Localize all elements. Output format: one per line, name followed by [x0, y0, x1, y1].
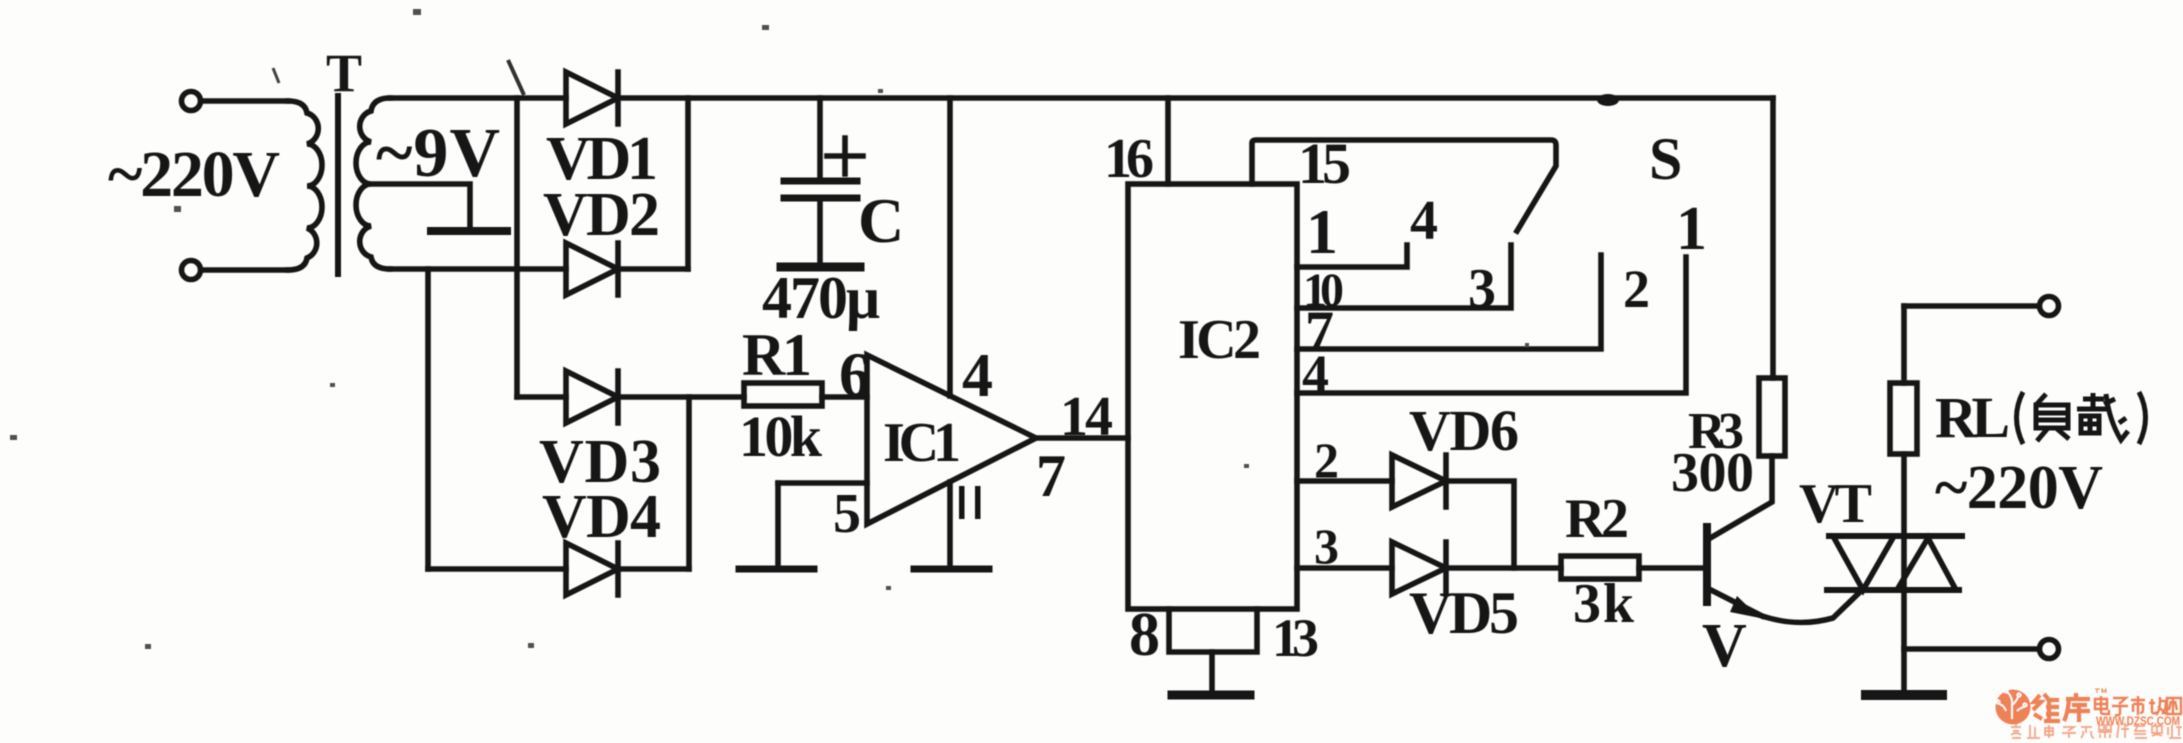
svg-text:T: T: [326, 43, 362, 103]
svg-text:S: S: [1649, 126, 1682, 192]
svg-text:VD2: VD2: [543, 181, 660, 249]
svg-text:~220V: ~220V: [108, 138, 280, 211]
svg-text:V: V: [1702, 612, 1747, 680]
svg-text:~9V: ~9V: [376, 115, 500, 192]
svg-text:14: 14: [1060, 386, 1113, 448]
svg-text:IC1: IC1: [883, 412, 961, 474]
svg-text:5: 5: [833, 483, 861, 545]
svg-text:470μ: 470μ: [762, 265, 880, 331]
svg-text:1: 1: [1306, 196, 1338, 267]
svg-text:3k: 3k: [1573, 573, 1635, 635]
svg-text:6: 6: [839, 339, 871, 410]
svg-text:3: 3: [1468, 258, 1496, 320]
svg-text:~220V: ~220V: [1935, 454, 2103, 522]
svg-text:C: C: [858, 185, 904, 256]
svg-text:8: 8: [1129, 601, 1160, 669]
svg-text:3: 3: [1314, 518, 1339, 574]
svg-text:R1: R1: [742, 322, 812, 388]
svg-text:2: 2: [1314, 432, 1339, 488]
svg-text:7: 7: [1036, 443, 1066, 509]
svg-text:2: 2: [1623, 259, 1650, 319]
svg-text:4: 4: [1410, 190, 1438, 252]
svg-text:VD4: VD4: [542, 483, 661, 551]
svg-text:15: 15: [1298, 131, 1351, 196]
svg-text:IC2: IC2: [1178, 309, 1261, 371]
svg-text:VD6: VD6: [1409, 398, 1519, 463]
svg-text:1: 1: [1676, 195, 1707, 263]
svg-text:4: 4: [962, 342, 993, 410]
svg-text:300: 300: [1671, 442, 1754, 504]
svg-text:10k: 10k: [739, 404, 823, 469]
svg-text:VD5: VD5: [1409, 580, 1519, 646]
svg-text:16: 16: [1104, 128, 1154, 190]
svg-text:VT: VT: [1799, 473, 1872, 535]
svg-text:RL: RL: [1935, 385, 2010, 450]
svg-text:4: 4: [1302, 344, 1329, 404]
svg-text:R2: R2: [1565, 488, 1629, 550]
svg-text:13: 13: [1272, 608, 1319, 668]
